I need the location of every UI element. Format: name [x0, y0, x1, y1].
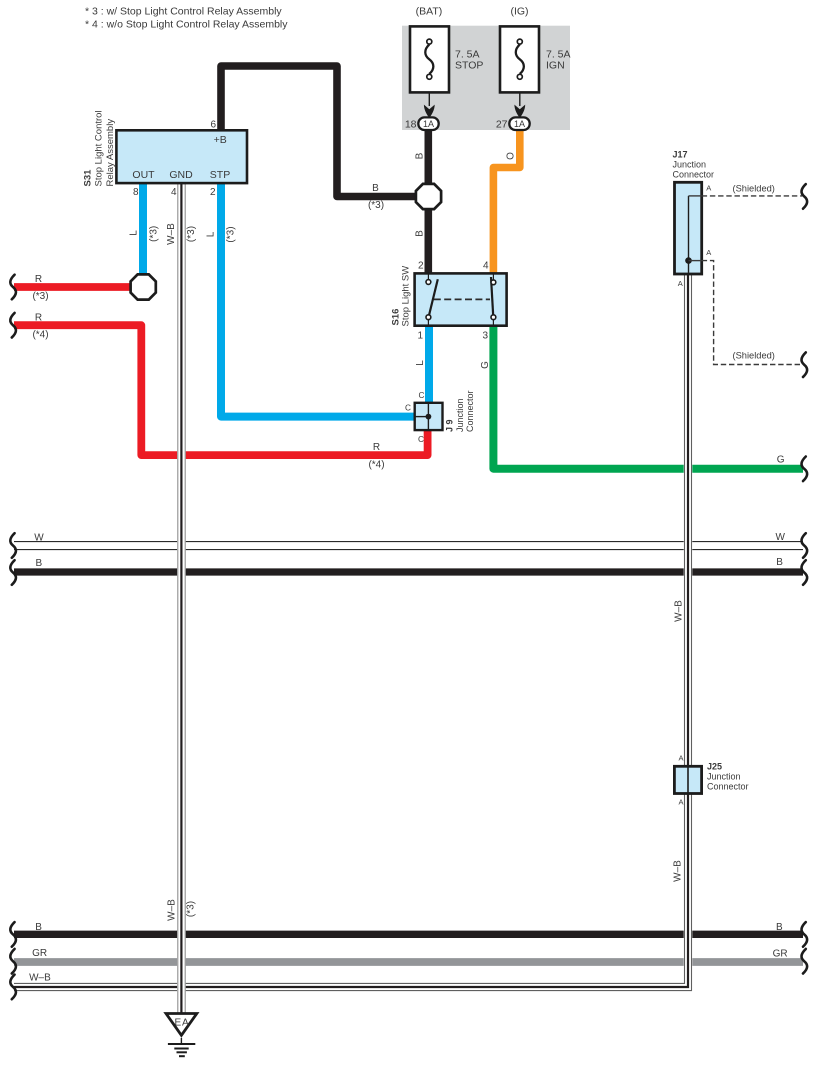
svg-text:Relay Assembly: Relay Assembly — [105, 119, 116, 187]
svg-text:Connector: Connector — [465, 390, 475, 432]
svg-text:(*3): (*3) — [368, 200, 384, 211]
svg-text:(*3): (*3) — [149, 226, 160, 242]
svg-text:W–B: W–B — [166, 223, 177, 245]
svg-text:Stop Light SW: Stop Light SW — [401, 266, 412, 327]
svg-text:+B: +B — [214, 134, 227, 146]
svg-text:2: 2 — [418, 261, 424, 272]
svg-text:R: R — [35, 274, 42, 285]
svg-text:(*3): (*3) — [186, 901, 197, 917]
svg-text:J 9: J 9 — [445, 419, 455, 432]
svg-text:C: C — [418, 434, 424, 444]
svg-text:(Shielded): (Shielded) — [733, 184, 775, 194]
svg-text:W: W — [776, 532, 786, 543]
svg-text:8: 8 — [133, 187, 139, 198]
svg-text:A: A — [678, 754, 683, 763]
svg-text:R: R — [373, 442, 380, 453]
svg-text:Connector: Connector — [707, 782, 749, 792]
svg-text:W–B: W–B — [167, 899, 178, 921]
svg-text:B: B — [414, 152, 425, 159]
svg-text:B: B — [776, 922, 783, 933]
svg-text:(*3): (*3) — [226, 226, 237, 242]
svg-text:GR: GR — [773, 949, 788, 960]
svg-text:3: 3 — [482, 331, 488, 342]
svg-text:B: B — [36, 558, 43, 569]
svg-text:C: C — [405, 403, 411, 413]
svg-text:Connector: Connector — [673, 170, 715, 180]
svg-text:STP: STP — [210, 169, 230, 181]
svg-text:6: 6 — [210, 120, 216, 131]
svg-text:4: 4 — [171, 187, 177, 198]
svg-text:Junction: Junction — [707, 772, 741, 782]
svg-text:J17: J17 — [673, 150, 688, 160]
svg-text:(BAT): (BAT) — [416, 6, 443, 18]
svg-text:A: A — [706, 183, 711, 192]
svg-text:(*4): (*4) — [368, 460, 384, 471]
svg-text:1A: 1A — [514, 119, 525, 129]
svg-text:B: B — [35, 922, 42, 933]
svg-text:1: 1 — [417, 331, 423, 342]
svg-text:(*3): (*3) — [186, 226, 197, 242]
svg-text:G: G — [777, 455, 785, 466]
svg-text:(*4): (*4) — [32, 330, 48, 341]
svg-text:* 3 : w/ Stop Light Control Re: * 3 : w/ Stop Light Control Relay Assemb… — [85, 6, 282, 18]
svg-text:W: W — [34, 533, 44, 544]
svg-text:C: C — [419, 390, 425, 400]
svg-text:4: 4 — [483, 261, 489, 272]
svg-text:L: L — [415, 360, 426, 366]
svg-text:* 4 : w/o Stop Light Control R: * 4 : w/o Stop Light Control Relay Assem… — [85, 19, 288, 31]
svg-text:IGN: IGN — [546, 60, 565, 72]
svg-text:(IG): (IG) — [510, 6, 528, 18]
svg-text:A: A — [706, 248, 711, 257]
svg-text:Stop Light Control: Stop Light Control — [94, 110, 105, 186]
svg-text:EA: EA — [175, 1018, 190, 1029]
svg-text:W–B: W–B — [29, 973, 51, 984]
svg-text:1A: 1A — [423, 119, 434, 129]
svg-text:Junction: Junction — [673, 160, 707, 170]
svg-text:2: 2 — [210, 187, 216, 198]
svg-text:A: A — [678, 279, 683, 288]
svg-text:18: 18 — [405, 119, 417, 131]
svg-text:GND: GND — [169, 169, 193, 181]
svg-text:B: B — [372, 183, 379, 194]
svg-text:W–B: W–B — [674, 600, 685, 622]
svg-text:G: G — [480, 361, 491, 369]
svg-text:O: O — [505, 152, 516, 160]
svg-text:S31: S31 — [83, 169, 94, 187]
svg-text:J25: J25 — [707, 762, 722, 772]
svg-text:L: L — [129, 230, 140, 236]
svg-text:Junction: Junction — [455, 398, 465, 432]
svg-text:L: L — [206, 231, 217, 237]
svg-text:OUT: OUT — [132, 169, 155, 181]
svg-text:STOP: STOP — [455, 60, 483, 72]
svg-text:(Shielded): (Shielded) — [733, 351, 775, 361]
svg-text:R: R — [35, 313, 42, 324]
svg-text:A: A — [678, 798, 683, 807]
svg-text:B: B — [776, 557, 783, 568]
svg-text:27: 27 — [496, 119, 508, 131]
svg-text:B: B — [414, 230, 425, 237]
svg-text:(*3): (*3) — [32, 291, 48, 302]
svg-text:W–B: W–B — [673, 860, 684, 882]
svg-text:GR: GR — [32, 948, 47, 959]
